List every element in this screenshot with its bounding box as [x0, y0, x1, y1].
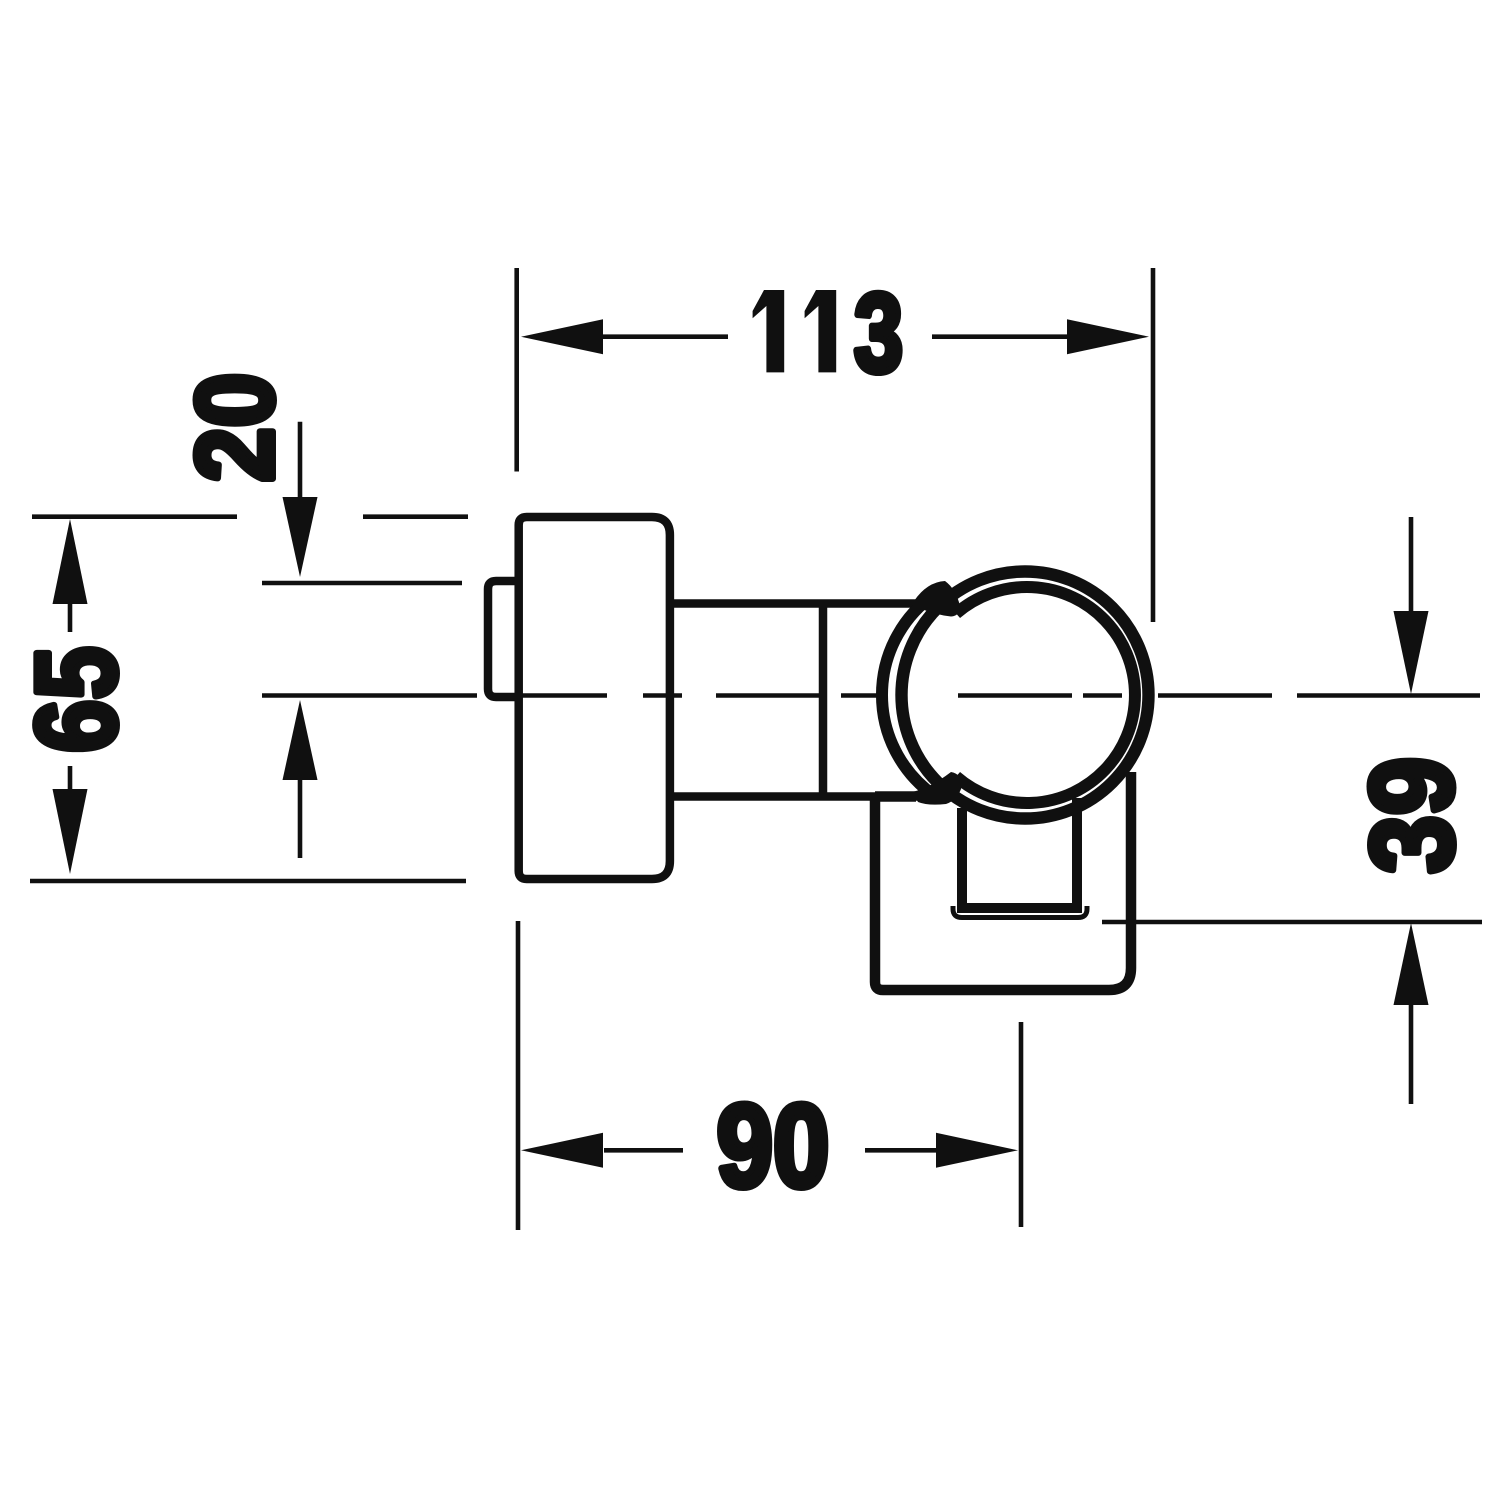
junction blob bottom-left: [912, 772, 962, 805]
arrowhead 113 right: [1067, 319, 1149, 354]
outlet cup lip: [953, 906, 1087, 918]
dimension text 90: [716, 1080, 829, 1212]
dimension text 113 digit 3: [854, 272, 903, 396]
dimension text 113 digit 1: [753, 290, 785, 372]
extension line 65 bottom: [30, 879, 466, 884]
dimension line 90 right segment: [865, 1148, 938, 1153]
arrowhead 65 up: [53, 519, 88, 604]
svg-text:39: 39: [1346, 757, 1478, 874]
dimension line 65 lower: [68, 766, 73, 791]
dimension line 90 left segment: [604, 1148, 683, 1153]
dimension line 113 right segment: [932, 334, 1068, 339]
supply stub outline: [488, 581, 518, 697]
svg-text:65: 65: [14, 646, 141, 752]
escutcheon flange outline: [519, 517, 670, 879]
extension line 39 bottom: [1102, 920, 1482, 925]
extension line 90 left: [516, 921, 521, 1230]
arrowhead 65 down: [53, 789, 88, 874]
centerline axis: [262, 693, 1480, 698]
valve body top edge: [670, 599, 920, 608]
dimension text 20: [173, 373, 296, 483]
extension line 113 left: [514, 268, 519, 472]
dimension text 39: [1346, 757, 1478, 874]
dimension line 65 upper: [68, 604, 73, 632]
arrowhead 90 left: [521, 1133, 603, 1168]
knob outer circle: [902, 572, 1149, 819]
junction blob top-left: [914, 581, 960, 617]
knob face inner arc: [956, 587, 1135, 803]
dimension 20 lower leader: [298, 779, 303, 858]
valve body bottom edge: [670, 792, 941, 801]
arrowhead 20 up: [283, 700, 318, 780]
svg-text:20: 20: [173, 373, 296, 483]
outlet cup right edge: [1072, 798, 1082, 903]
extension line 113 right: [1151, 268, 1156, 622]
arrowhead 39 down: [1394, 611, 1429, 694]
outlet cup bottom edge: [957, 903, 1082, 913]
dimension line 39 lower: [1409, 1004, 1414, 1104]
arrowhead 20 down: [283, 497, 318, 577]
holder bracket outline: [875, 772, 1131, 990]
dimension text 65: [14, 646, 141, 752]
arrowhead 90 right: [936, 1133, 1018, 1168]
dimension line 113 left segment: [601, 334, 728, 339]
dimension text 113 digit 1 (second): [805, 290, 837, 372]
knob back edge arc: [882, 594, 935, 796]
svg-text:90: 90: [716, 1080, 829, 1212]
bracket top edge: [875, 791, 916, 802]
extension line 90 right: [1019, 1022, 1024, 1227]
dimension 20 upper leader: [298, 422, 303, 500]
svg-text:3: 3: [854, 272, 903, 396]
arrowhead 113 left: [521, 319, 603, 354]
outlet cup left edge: [957, 808, 967, 903]
extension line 20/65 top (y=517): [32, 514, 468, 519]
valve body step line: [819, 604, 828, 796]
dimension line 39 upper: [1409, 517, 1414, 613]
arrowhead 39 up: [1394, 923, 1429, 1005]
extension line 20 bottom (stub top level): [262, 581, 462, 586]
